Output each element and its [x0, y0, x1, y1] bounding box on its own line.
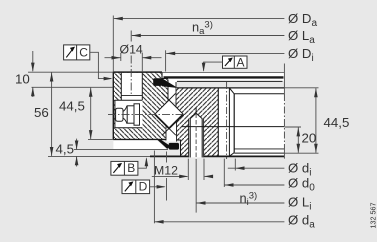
svg-text:132 567: 132 567 [369, 203, 377, 229]
svg-text:20: 20 [302, 130, 317, 145]
svg-text:D: D [139, 179, 148, 193]
svg-text:B: B [127, 161, 135, 175]
svg-text:10: 10 [15, 72, 30, 87]
svg-text:M12: M12 [154, 163, 178, 177]
svg-text:4,5: 4,5 [56, 141, 75, 156]
svg-text:44,5: 44,5 [324, 115, 350, 130]
svg-text:Ø14: Ø14 [120, 42, 143, 56]
svg-text:C: C [79, 46, 88, 60]
svg-text:56: 56 [34, 105, 49, 120]
svg-text:44,5: 44,5 [59, 98, 85, 113]
svg-text:A: A [237, 56, 245, 70]
